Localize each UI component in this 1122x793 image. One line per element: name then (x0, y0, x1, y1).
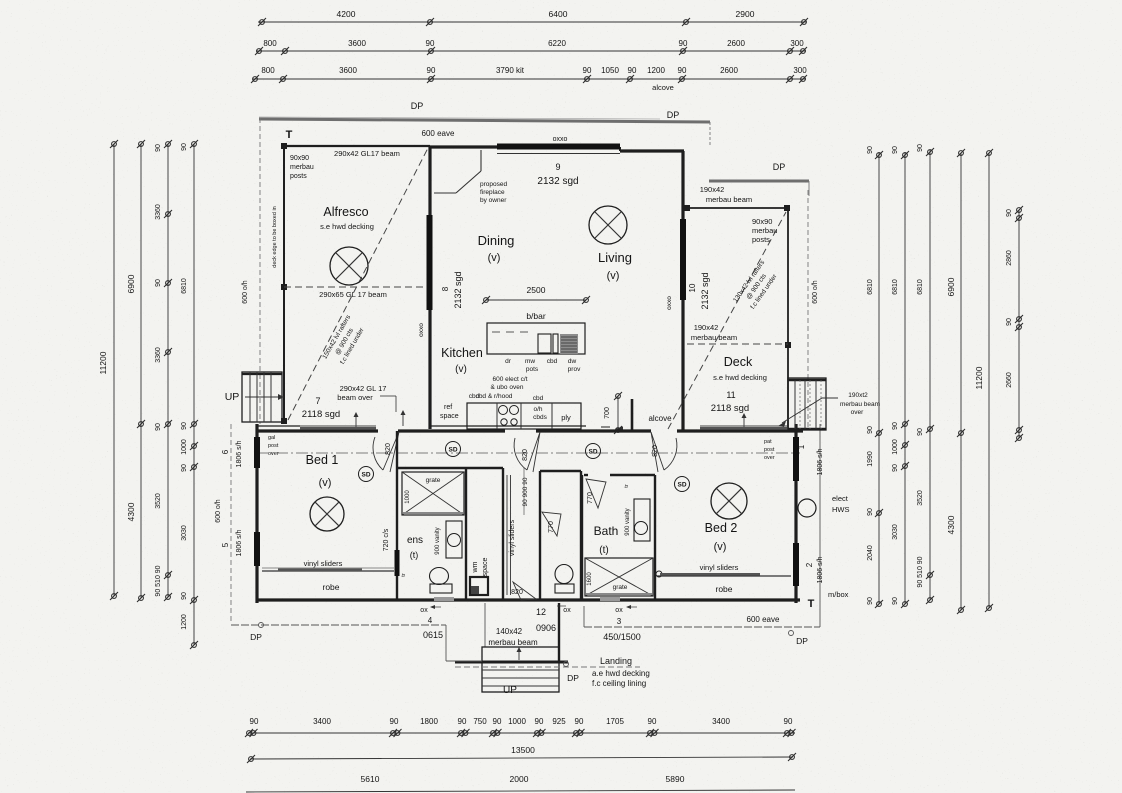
washing machine box (470, 577, 488, 595)
dimension line left 1: 11200 (113, 144, 115, 596)
svg-text:90: 90 (892, 422, 899, 430)
svg-text:space: space (440, 413, 459, 420)
svg-text:post: post (268, 443, 279, 449)
svg-text:ens: ens (407, 535, 423, 546)
svg-text:90: 90 (493, 717, 502, 726)
svg-text:600 elect c/t: 600 elect c/t (492, 376, 527, 383)
svg-text:4: 4 (428, 616, 433, 625)
svg-text:90: 90 (917, 428, 924, 436)
svg-text:90: 90 (181, 422, 188, 430)
svg-text:11200: 11200 (974, 366, 984, 389)
deck diagonal rafter dashed line (668, 212, 786, 429)
svg-text:3360: 3360 (155, 347, 162, 363)
svg-text:11200: 11200 (98, 351, 108, 374)
svg-text:DP: DP (667, 110, 680, 120)
svg-text:fireplace: fireplace (480, 189, 505, 196)
svg-text:90: 90 (1006, 209, 1013, 217)
alfresco post line (left wall) (283, 144, 285, 424)
svg-text:900 vanity: 900 vanity (625, 508, 631, 535)
dimension line right 5: 11200 (988, 153, 990, 608)
svg-text:grate: grate (426, 477, 441, 484)
svg-text:over: over (764, 455, 775, 461)
svg-text:2132 sgd: 2132 sgd (700, 272, 710, 309)
arrow to alfresco sgd (355, 414, 357, 429)
svg-text:1600: 1600 (587, 572, 593, 586)
svg-text:SD: SD (448, 447, 457, 454)
svg-text:0906: 0906 (536, 623, 556, 633)
svg-text:1806 s/h: 1806 s/h (236, 440, 243, 467)
svg-text:3790 kit: 3790 kit (496, 66, 525, 75)
svg-text:over: over (851, 409, 864, 416)
svg-text:1000: 1000 (181, 439, 188, 455)
svg-text:over: over (268, 451, 279, 457)
window 1806 s/h bands left (254, 437, 260, 468)
svg-text:m/box: m/box (828, 590, 849, 599)
gutter line top (DP run) (259, 119, 710, 122)
deck right edge (787, 208, 789, 429)
ens toilet (430, 568, 449, 585)
svg-text:190x42: 190x42 (700, 185, 725, 194)
svg-text:190xt2: 190xt2 (848, 392, 868, 399)
svg-text:1800: 1800 (420, 717, 438, 726)
svg-text:2600: 2600 (720, 66, 738, 75)
door 820 to bed2 (651, 432, 677, 472)
svg-text:a.e hwd decking: a.e hwd decking (592, 669, 650, 678)
svg-text:3: 3 (617, 617, 622, 626)
svg-text:6810: 6810 (181, 278, 188, 294)
svg-text:Alfresco: Alfresco (323, 205, 368, 219)
svg-text:290x42 GL 17: 290x42 GL 17 (340, 384, 387, 393)
svg-text:290x42 GL17 beam: 290x42 GL17 beam (334, 149, 400, 158)
svg-text:Bath: Bath (594, 524, 619, 538)
svg-text:700: 700 (604, 407, 611, 419)
dimension line left 2: 6900/4300 (140, 144, 142, 598)
svg-text:2860: 2860 (1006, 250, 1013, 266)
svg-text:prov: prov (568, 366, 581, 373)
svg-text:90: 90 (250, 717, 259, 726)
svg-text:cbd & r/hood: cbd & r/hood (476, 393, 513, 400)
svg-text:1705: 1705 (606, 717, 624, 726)
svg-text:90: 90 (867, 426, 874, 434)
svg-text:UP: UP (503, 685, 517, 696)
ens top wall (397, 467, 503, 469)
svg-text:1806 s/h: 1806 s/h (236, 529, 243, 556)
svg-text:9: 9 (555, 162, 560, 172)
svg-text:oxxo: oxxo (666, 296, 673, 310)
dimension line right 2: 90/6810/90 1000 90/3030/90 (904, 152, 906, 604)
svg-text:140x42: 140x42 (496, 627, 523, 636)
svg-text:Bed 1: Bed 1 (306, 453, 339, 467)
svg-text:90: 90 (390, 717, 399, 726)
dimension line left 4: 90/6810/90 1000 90/3030/90/1200 (193, 144, 195, 645)
svg-text:1806 s/h: 1806 s/h (817, 556, 824, 583)
svg-text:3600: 3600 (339, 66, 357, 75)
svg-text:alcove: alcove (648, 414, 672, 423)
bath left wall (581, 475, 583, 600)
svg-text:(t): (t) (410, 550, 419, 560)
dimension line right 3: 90/6810/90/3520/90 510 90 (929, 150, 931, 600)
svg-text:11: 11 (726, 390, 735, 400)
svg-text:(t): (t) (599, 545, 608, 556)
svg-text:DP: DP (250, 632, 262, 642)
electric HWS circle (798, 499, 816, 517)
svg-text:6810: 6810 (892, 279, 899, 295)
svg-text:merbau beam: merbau beam (706, 195, 752, 204)
dimension line bottom 3: 5610/2000/5890 (246, 790, 795, 792)
svg-text:90: 90 (181, 143, 188, 151)
bed1/ens wall (396, 431, 398, 600)
dishwasher hatch (560, 334, 578, 354)
svg-text:6810: 6810 (917, 279, 924, 295)
hall toilet (555, 565, 573, 584)
eave dashed line left of bed1 (600 o/h) (230, 424, 232, 623)
dimension line right 4: 6900/4300 (960, 153, 962, 610)
arrow to deck sgd (743, 415, 745, 429)
svg-text:820: 820 (385, 443, 392, 455)
robe bed2 (657, 575, 791, 577)
svg-text:1200: 1200 (647, 66, 665, 75)
vinyl sliders (corridor) (506, 475, 508, 595)
svg-text:ox: ox (563, 607, 571, 614)
svg-text:ply: ply (561, 413, 571, 422)
svg-text:1050: 1050 (601, 66, 619, 75)
svg-text:tr: tr (624, 484, 630, 488)
svg-text:oxxo: oxxo (418, 323, 425, 337)
svg-text:Living: Living (598, 250, 632, 265)
svg-text:2500: 2500 (527, 285, 546, 295)
bed2 left wall (654, 475, 656, 600)
svg-text:3600: 3600 (348, 39, 366, 48)
svg-text:vinyl sliders: vinyl sliders (700, 563, 739, 572)
robe bed1 (262, 570, 394, 572)
svg-text:6220: 6220 (548, 39, 566, 48)
svg-text:DP: DP (796, 636, 808, 646)
svg-text:Bed 2: Bed 2 (705, 521, 738, 535)
svg-text:s.e hwd decking: s.e hwd decking (713, 373, 767, 382)
door 820 to hall (514, 432, 540, 472)
svg-text:ref: ref (444, 404, 452, 411)
svg-text:1000: 1000 (508, 717, 526, 726)
svg-text:3360: 3360 (155, 204, 162, 220)
svg-text:robe: robe (715, 584, 732, 594)
svg-text:& ubo oven: & ubo oven (491, 384, 524, 391)
window 9 band in top wall (497, 144, 620, 150)
svg-text:o/h: o/h (533, 406, 542, 413)
svg-text:by owner: by owner (480, 197, 507, 204)
svg-text:2040: 2040 (867, 545, 874, 561)
svg-text:f.c ceiling lining: f.c ceiling lining (592, 679, 646, 688)
svg-text:90: 90 (535, 717, 544, 726)
svg-text:UP: UP (225, 391, 240, 403)
window 8 band in left wall (427, 215, 433, 310)
living right wall (681, 151, 684, 430)
alfresco diagonal dashed rafter line (288, 148, 428, 420)
door 770 bath (586, 479, 606, 508)
svg-text:(v): (v) (714, 541, 727, 553)
svg-text:dw: dw (568, 358, 577, 365)
label rafters alfresco (rotated) (321, 313, 368, 369)
svg-text:90 510 90: 90 510 90 (155, 565, 162, 596)
svg-text:merbau beam: merbau beam (840, 401, 880, 408)
svg-text:600 eave: 600 eave (747, 615, 780, 624)
ens shower grate (402, 472, 464, 515)
svg-text:90: 90 (867, 597, 874, 605)
svg-text:2132 sgd: 2132 sgd (453, 271, 463, 308)
bath vanity (634, 499, 650, 541)
svg-text:wm: wm (472, 561, 479, 573)
dimension 700 (alcove) (617, 396, 619, 430)
sink in b/bar (538, 334, 551, 353)
left outer wall (255, 424, 258, 603)
svg-text:90: 90 (784, 717, 793, 726)
svg-text:90: 90 (892, 146, 899, 154)
alfresco mid dashed beam line (284, 286, 430, 288)
svg-text:elect: elect (832, 494, 849, 503)
svg-text:6: 6 (221, 449, 230, 454)
svg-text:1000: 1000 (405, 490, 411, 504)
bath top wall (584, 474, 588, 476)
svg-text:90: 90 (679, 39, 688, 48)
door 770 hall wc (542, 512, 561, 536)
svg-text:2118 sgd: 2118 sgd (711, 403, 749, 414)
smoke detector SD bed1 (359, 467, 374, 482)
svg-text:90: 90 (426, 39, 435, 48)
svg-text:90: 90 (181, 592, 188, 600)
svg-text:10: 10 (688, 283, 697, 292)
label rafters deck (rotated) (732, 259, 781, 314)
svg-text:90: 90 (583, 66, 592, 75)
svg-text:space: space (482, 558, 489, 577)
svg-text:6900: 6900 (946, 277, 956, 296)
svg-text:5610: 5610 (361, 774, 380, 784)
svg-text:DP: DP (773, 162, 786, 172)
ens vanity (446, 521, 462, 558)
ceiling fan living (589, 206, 627, 244)
right outer wall (794, 424, 797, 603)
svg-text:3030: 3030 (181, 525, 188, 541)
svg-text:3030: 3030 (892, 524, 899, 540)
svg-text:posts: posts (752, 235, 770, 244)
svg-text:770: 770 (587, 492, 594, 504)
svg-text:3520: 3520 (917, 490, 924, 506)
svg-text:770: 770 (548, 521, 555, 533)
svg-text:T: T (286, 129, 293, 141)
smoke detector SD hall right (586, 444, 601, 459)
svg-text:90: 90 (648, 717, 657, 726)
svg-text:90: 90 (155, 279, 162, 287)
svg-text:grate: grate (613, 584, 628, 591)
ceiling dash-dot line through bedroom strip (256, 452, 800, 454)
svg-text:90: 90 (917, 144, 924, 152)
door 820 to bed1 (373, 432, 399, 472)
svg-text:1200: 1200 (181, 614, 188, 630)
svg-text:750: 750 (473, 717, 487, 726)
hall wc left wall (539, 471, 541, 600)
svg-text:0615: 0615 (423, 630, 443, 640)
svg-text:robe: robe (322, 582, 339, 592)
svg-text:800: 800 (261, 66, 275, 75)
svg-text:2118 sgd: 2118 sgd (302, 409, 340, 420)
dimension line top 1: 4200/6400/2900 (258, 21, 806, 23)
svg-text:Deck: Deck (724, 355, 753, 369)
svg-text:13500: 13500 (511, 745, 535, 755)
svg-text:merbau: merbau (290, 164, 314, 171)
svg-text:SD: SD (361, 472, 370, 479)
svg-text:6400: 6400 (549, 9, 568, 19)
svg-text:mw: mw (525, 358, 535, 365)
svg-text:90: 90 (678, 66, 687, 75)
svg-text:gal: gal (268, 435, 275, 441)
svg-text:DP: DP (567, 673, 579, 683)
svg-text:90 510 90: 90 510 90 (917, 556, 924, 587)
svg-text:ox: ox (420, 607, 428, 614)
svg-text:90: 90 (181, 464, 188, 472)
svg-text:4300: 4300 (946, 515, 956, 534)
svg-text:6900: 6900 (126, 274, 136, 293)
svg-text:600 o/h: 600 o/h (812, 280, 819, 303)
svg-text:3520: 3520 (155, 493, 162, 509)
ens/wm wall (465, 468, 467, 600)
svg-text:925: 925 (552, 717, 566, 726)
svg-text:1000: 1000 (892, 439, 899, 455)
svg-text:800: 800 (263, 39, 277, 48)
stairs right deck (788, 378, 826, 430)
svg-text:DP: DP (411, 101, 424, 111)
dimension line top 3: 800/3600/90/3790 kit/90/1050/90/1200/90/2600/300 (253, 78, 806, 80)
svg-text:oxxo: oxxo (553, 136, 568, 143)
svg-text:3400: 3400 (712, 717, 730, 726)
deck top beam (687, 207, 788, 209)
svg-text:90 900 90: 90 900 90 (522, 477, 529, 506)
svg-text:300: 300 (793, 66, 807, 75)
alcove left wall (631, 399, 634, 430)
svg-text:90: 90 (458, 717, 467, 726)
svg-text:4200: 4200 (337, 9, 356, 19)
eave dashed line left of alfresco (deck edge) (259, 118, 261, 424)
svg-text:5: 5 (221, 542, 230, 547)
svg-text:820: 820 (511, 589, 523, 596)
svg-text:90: 90 (867, 146, 874, 154)
svg-text:proposed: proposed (480, 181, 507, 188)
svg-text:90: 90 (427, 66, 436, 75)
svg-text:90: 90 (155, 423, 162, 431)
svg-text:90: 90 (892, 597, 899, 605)
dimension line bottom 2: 13500 (250, 757, 793, 759)
main wall between living zone and bedroom strip (256, 429, 378, 432)
deck mid dashed beam (687, 343, 788, 345)
svg-text:7: 7 (315, 396, 320, 406)
corridor exit walls (484, 603, 486, 647)
svg-text:ox: ox (615, 607, 623, 614)
wm space room (502, 468, 504, 600)
svg-text:SD: SD (677, 482, 686, 489)
svg-text:(v): (v) (488, 252, 501, 264)
svg-text:1: 1 (797, 444, 806, 449)
svg-text:1990: 1990 (867, 451, 874, 467)
svg-text:(v): (v) (455, 364, 467, 375)
svg-text:SD: SD (588, 449, 597, 456)
svg-text:90: 90 (892, 464, 899, 472)
stairs left UP (242, 372, 282, 422)
svg-text:1806 s/h: 1806 s/h (817, 448, 824, 475)
svg-text:cbd: cbd (547, 358, 558, 365)
svg-text:90x90: 90x90 (752, 217, 772, 226)
kitchen inner wall line (430, 425, 586, 427)
svg-text:900 vanity: 900 vanity (435, 527, 441, 554)
deck sliding door (11) (700, 425, 788, 427)
svg-text:90: 90 (155, 144, 162, 152)
eave line bottom right (584, 626, 820, 628)
svg-text:(v): (v) (319, 477, 332, 489)
svg-text:720 c/s: 720 c/s (383, 528, 390, 551)
svg-text:tr: tr (401, 573, 407, 577)
svg-text:190x42: 190x42 (694, 323, 719, 332)
dimension line top 2: 800/3600/90/6220/90/2600/300 (256, 50, 806, 52)
svg-text:merbau: merbau (752, 226, 777, 235)
dimension line right 1: 90/6810/90/1990/90/2040/90 (878, 152, 880, 604)
fireplace nook corner (480, 150, 482, 171)
svg-text:8: 8 (441, 286, 450, 291)
svg-text:820: 820 (522, 449, 529, 461)
alcove threshold marks (601, 426, 610, 428)
svg-text:beam over: beam over (337, 393, 373, 402)
svg-text:merbau beam: merbau beam (691, 333, 737, 342)
svg-text:6810: 6810 (867, 279, 874, 295)
svg-text:2600: 2600 (727, 39, 745, 48)
alfresco sliding door (7) (300, 425, 376, 427)
svg-text:290x65 GL 17 beam: 290x65 GL 17 beam (319, 290, 387, 299)
svg-text:vinyl sliders: vinyl sliders (304, 559, 343, 568)
svg-text:90: 90 (575, 717, 584, 726)
svg-text:Landing: Landing (600, 656, 632, 666)
svg-text:Kitchen: Kitchen (441, 346, 483, 360)
kitchen bench bottom (467, 403, 581, 429)
dining left wall (428, 147, 431, 429)
svg-text:600 o/h: 600 o/h (242, 280, 249, 303)
svg-text:HWS: HWS (832, 505, 850, 514)
dining top wall (430, 145, 620, 148)
b/bar bench (487, 323, 585, 354)
eave line bottom left (231, 624, 446, 626)
gutter line deck top (709, 180, 809, 183)
bottom outer wall (256, 598, 800, 601)
eave dashed line right of deck (600 o/h) (807, 190, 809, 429)
svg-text:vinyl sliders: vinyl sliders (509, 519, 516, 556)
svg-text:4300: 4300 (126, 502, 136, 521)
svg-text:dr: dr (505, 358, 512, 365)
cooktop circles (499, 406, 508, 415)
ceiling fan bed2 (711, 483, 747, 519)
svg-text:90: 90 (628, 66, 637, 75)
svg-text:pat: pat (764, 439, 772, 445)
svg-text:2000: 2000 (510, 774, 529, 784)
svg-text:2660: 2660 (1006, 372, 1013, 388)
svg-text:Dining: Dining (478, 233, 515, 248)
svg-text:T: T (808, 598, 815, 610)
svg-text:12: 12 (536, 607, 546, 617)
ceiling fan alfresco (330, 247, 368, 285)
door 820 hall bottom (513, 582, 536, 600)
svg-text:820: 820 (652, 445, 659, 457)
svg-text:cbds: cbds (533, 414, 547, 421)
svg-text:90: 90 (867, 508, 874, 516)
svg-text:450/1500: 450/1500 (603, 632, 641, 642)
arrow at dining wall base (402, 412, 404, 426)
svg-text:300: 300 (790, 39, 804, 48)
svg-text:5890: 5890 (666, 774, 685, 784)
svg-text:90x90: 90x90 (290, 155, 309, 162)
dimension line right 6: 90/2860/90/2660 (1018, 210, 1020, 438)
